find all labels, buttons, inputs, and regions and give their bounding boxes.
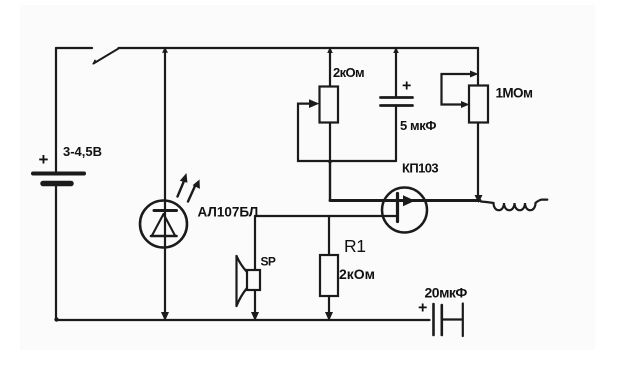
svg-text:КП103: КП103	[402, 161, 438, 176]
svg-text:+: +	[402, 78, 411, 95]
svg-text:20мкФ: 20мкФ	[425, 285, 468, 301]
svg-text:АЛ107БЛ: АЛ107БЛ	[198, 205, 259, 220]
svg-text:R1: R1	[344, 236, 366, 256]
svg-text:3-4,5В: 3-4,5В	[63, 144, 102, 159]
svg-text:5 мкФ: 5 мкФ	[400, 118, 436, 133]
svg-text:SP: SP	[261, 255, 276, 269]
svg-text:1МОм: 1МОм	[496, 86, 533, 101]
svg-text:2кОм: 2кОм	[333, 65, 364, 80]
svg-text:+: +	[418, 300, 427, 317]
svg-text:2кОм: 2кОм	[339, 266, 375, 282]
svg-text:+: +	[39, 150, 49, 169]
